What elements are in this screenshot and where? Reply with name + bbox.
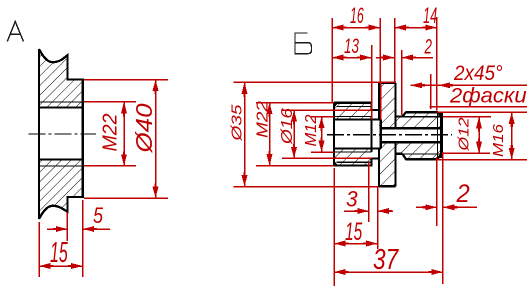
svg-text:14: 14 xyxy=(423,3,437,27)
svg-text:15: 15 xyxy=(50,236,68,268)
svg-text:5: 5 xyxy=(93,204,104,228)
svg-text:2фаски: 2фаски xyxy=(449,84,527,107)
svg-text:2: 2 xyxy=(456,180,471,208)
svg-text:М12: М12 xyxy=(303,114,320,146)
svg-text:Ø12: Ø12 xyxy=(456,117,473,152)
svg-text:Ø35: Ø35 xyxy=(229,104,246,142)
svg-text:16: 16 xyxy=(350,3,364,28)
svg-text:М16: М16 xyxy=(490,123,507,157)
svg-text:15: 15 xyxy=(345,218,363,246)
svg-text:Ø40: Ø40 xyxy=(131,103,157,153)
svg-text:3: 3 xyxy=(346,187,358,212)
svg-text:2: 2 xyxy=(424,34,432,58)
svg-text:Ø16: Ø16 xyxy=(279,108,296,146)
svg-text:13: 13 xyxy=(344,34,359,58)
svg-text:2x45°: 2x45° xyxy=(453,62,503,85)
svg-text:37: 37 xyxy=(373,242,399,275)
svg-text:М22: М22 xyxy=(255,101,272,138)
svg-text:М22: М22 xyxy=(100,114,122,152)
